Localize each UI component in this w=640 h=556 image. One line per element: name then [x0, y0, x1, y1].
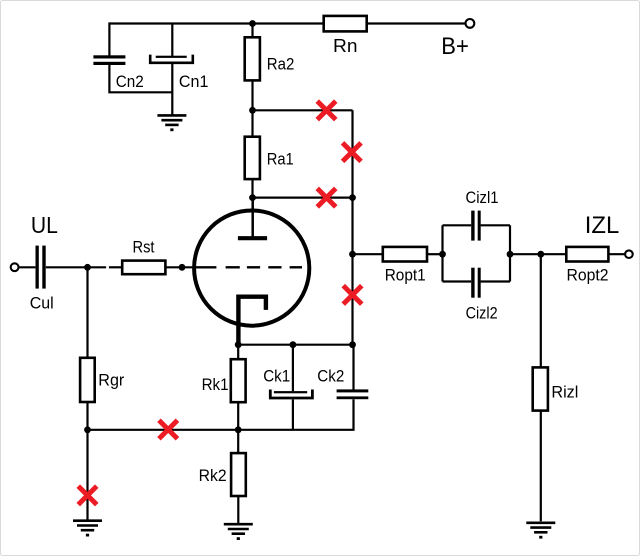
- node cap loop right: [507, 251, 514, 258]
- node anode row right: [349, 194, 356, 201]
- capacitor Ck1 bracket electrode: [270, 390, 312, 399]
- svg-text:IZL: IZL: [585, 212, 620, 239]
- resistor Ropt1: [383, 247, 427, 262]
- svg-text:Ck2: Ck2: [317, 366, 344, 385]
- error mark X4 on right column lower: [343, 286, 362, 305]
- wire Cul to input node: [46, 266, 106, 268]
- svg-text:Cizl1: Cizl1: [466, 188, 499, 207]
- capacitor Cizl1 plates: [471, 211, 474, 241]
- terminal UL input: [11, 263, 19, 271]
- wire Ra2 bottom lead: [251, 80, 253, 110]
- svg-text:Rk1: Rk1: [202, 375, 229, 394]
- node bottom row / Rgr: [84, 426, 91, 433]
- wire top rail right of Rn to B+: [367, 22, 465, 24]
- wire Ck2 top lead: [352, 345, 354, 390]
- svg-text:Ropt1: Ropt1: [385, 266, 426, 285]
- wire Cn1 top lead: [171, 24, 173, 57]
- wire Rk2 bottom lead to ground: [237, 496, 239, 523]
- wire input terminal to Cul: [19, 266, 35, 268]
- svg-text:Ropt2: Ropt2: [567, 266, 609, 285]
- wire top rail left of Rn: [109, 22, 323, 24]
- wire Ck1 top lead: [292, 345, 294, 392]
- svg-text:B+: B+: [441, 33, 469, 60]
- capacitor Cul plates: [36, 246, 39, 289]
- wire Cizl1 right lead: [481, 224, 510, 226]
- svg-text:Cizl2: Cizl2: [466, 304, 498, 323]
- svg-text:UL: UL: [31, 212, 58, 238]
- wire Cizl1 left lead: [443, 224, 472, 226]
- error mark X3 on anode row: [317, 188, 336, 207]
- svg-text:Rizl: Rizl: [551, 383, 578, 402]
- wire row Ra2/Ra1 junction to right column: [253, 109, 353, 111]
- wire Rizl top lead: [540, 254, 542, 367]
- wire Ropt2 to output terminal: [608, 253, 624, 255]
- svg-text:Cul: Cul: [30, 293, 54, 312]
- ground (Cn1): [157, 115, 186, 125]
- wire Rgr top lead from input node: [86, 267, 88, 358]
- node cathode / right column: [349, 341, 356, 348]
- svg-text:Ra1: Ra1: [267, 150, 294, 169]
- wire output row from right column to Ropt1: [353, 253, 383, 255]
- ground (Rizl): [526, 523, 555, 533]
- wire anode row: [253, 197, 353, 199]
- node anode row left: [249, 194, 256, 201]
- svg-text:Rk2: Rk2: [199, 466, 227, 485]
- wire Cizl2 right lead: [481, 280, 510, 282]
- resistor Rgr: [80, 358, 95, 402]
- wire input node to Rst (with small break): [109, 266, 122, 268]
- wire cap loop left vertical: [441, 225, 443, 281]
- triode anode plate bar: [238, 236, 267, 240]
- svg-text:Rn: Rn: [333, 36, 358, 56]
- capacitor Ck1 top plate: [274, 391, 307, 393]
- wire Rk1 top lead: [237, 345, 239, 360]
- resistor Rk2: [231, 453, 246, 496]
- node cathode / Rk1: [235, 341, 242, 348]
- capacitor Cn2 plates: [93, 55, 125, 58]
- capacitor Cn1 bracket electrode: [150, 55, 193, 63]
- node cap loop left: [439, 251, 446, 258]
- svg-text:Cn1: Cn1: [179, 72, 209, 91]
- capacitor Cizl2 plates: [471, 268, 474, 298]
- svg-text:Ra2: Ra2: [267, 54, 295, 73]
- terminal B+: [466, 19, 475, 28]
- error mark X5 on bottom row: [159, 420, 178, 439]
- wire Ra2 top lead: [251, 24, 253, 38]
- triode tube envelope: [194, 211, 309, 326]
- wire loop to Ropt2: [510, 253, 566, 255]
- svg-text:Rst: Rst: [133, 238, 155, 257]
- wire right column vertical: [351, 110, 353, 344]
- wire Cn2 bottom lead and bottom link to Cn1: [109, 65, 172, 93]
- error mark X2 on right column upper: [343, 143, 362, 162]
- wire Cn2 top lead: [108, 22, 110, 55]
- wire Ropt1 to cap loop: [427, 253, 443, 255]
- wire Ck1 bottom lead: [292, 399, 294, 429]
- svg-text:Cn2: Cn2: [116, 72, 144, 91]
- resistor Rk1: [231, 359, 246, 402]
- node grid: [179, 264, 186, 271]
- ground (Rk2): [224, 524, 253, 534]
- resistor Ropt2: [566, 247, 608, 262]
- node Rizl tap: [537, 251, 544, 258]
- error mark X6 on Rgr ground lead: [78, 486, 97, 505]
- wire Rizl bottom lead to ground: [540, 411, 542, 522]
- triode grid dashed line: [194, 266, 302, 268]
- wire Rgr bottom lead down to ground: [86, 402, 88, 520]
- node bottom row / Rk: [235, 426, 242, 433]
- resistor Ra1: [245, 137, 260, 179]
- triode cathode hook and lead: [238, 297, 266, 343]
- capacitor Cn1 top plate: [156, 56, 187, 58]
- wire Ra1 bottom lead: [251, 179, 253, 198]
- svg-text:Rgr: Rgr: [98, 371, 124, 390]
- resistor Ra2: [245, 37, 260, 80]
- wire Cn1 bottom lead to ground: [171, 64, 173, 115]
- resistor Rizl: [533, 367, 548, 410]
- ground (Rgr): [73, 521, 102, 531]
- resistor Rn: [324, 16, 367, 32]
- node cathode / Ck1: [290, 341, 297, 348]
- node Ra2/Ra1 junction: [249, 107, 256, 114]
- node input / Rgr tap: [84, 264, 91, 271]
- wire Rst to grid node: [165, 266, 194, 268]
- terminal IZL output: [625, 250, 633, 258]
- wire anode lead into tube: [251, 198, 254, 237]
- resistor Rst: [122, 261, 165, 275]
- wire Ra1 top lead: [251, 110, 253, 137]
- wire cathode row: [238, 344, 352, 346]
- error mark X1 on Ra1 top bypass wire: [317, 101, 336, 120]
- wire Cizl2 left lead: [443, 280, 472, 282]
- node output row at right column: [349, 251, 356, 258]
- wire bottom row: [88, 399, 354, 430]
- svg-text:Ck1: Ck1: [263, 366, 290, 385]
- wire cap loop right vertical: [509, 225, 511, 281]
- wire Rk1 to Rk2: [237, 402, 239, 453]
- node top rail / Ra2: [249, 20, 256, 27]
- capacitor Ck2 plates: [337, 389, 369, 392]
